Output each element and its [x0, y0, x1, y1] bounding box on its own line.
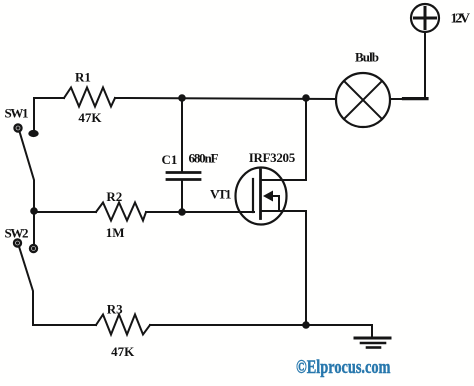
svg-text:R2: R2	[106, 189, 122, 204]
svg-text:SW2: SW2	[5, 226, 29, 241]
wire: thick supply bar	[404, 97, 428, 100]
lamp Bulb	[336, 73, 390, 127]
node: bottom junction	[302, 321, 310, 329]
svg-text:©Elprocus.com: ©Elprocus.com	[296, 357, 391, 378]
node: C1 bottom junction	[178, 208, 186, 216]
node: C1 top junction	[178, 94, 186, 102]
svg-text:R3: R3	[107, 302, 123, 317]
svg-text:VT1: VT1	[210, 186, 232, 201]
svg-text:C1: C1	[162, 152, 178, 167]
capacitor C1	[167, 98, 200, 212]
svg-text:12V: 12V	[451, 11, 471, 26]
svg-text:IRF3205: IRF3205	[249, 150, 296, 165]
switch SW2	[14, 212, 37, 325]
wire: up to 12V	[424, 32, 426, 98]
wire: R1 to bulb	[115, 98, 336, 99]
node: SW1/SW2/R2 junction	[30, 207, 38, 215]
node: drain top junction	[302, 94, 310, 102]
resistor R3	[96, 315, 150, 335]
switch SW1	[15, 125, 39, 209]
wire: R2 to gate	[146, 211, 254, 213]
wire: source down to bottom	[305, 211, 307, 325]
wire: SW2 to R3	[33, 324, 96, 326]
ground	[355, 325, 390, 348]
svg-text:1M: 1M	[106, 225, 125, 240]
svg-text:47K: 47K	[78, 110, 102, 125]
svg-text:R1: R1	[75, 69, 91, 84]
transistor VT1 IRF3205	[236, 168, 307, 225]
wire: drain connection	[262, 98, 306, 180]
svg-text:SW1: SW1	[5, 105, 29, 120]
wire: junction to R2	[34, 211, 96, 213]
wire: R3 to ground corner	[150, 324, 372, 326]
wire: bulb right stub	[390, 98, 404, 100]
wire top-left: SW1 up to R1	[34, 98, 64, 132]
power +12V terminal	[411, 4, 439, 32]
resistor R1	[64, 88, 115, 107]
resistor R2	[96, 203, 146, 221]
svg-text:Bulb: Bulb	[355, 50, 379, 65]
svg-text:680nF: 680nF	[189, 150, 219, 165]
svg-text:47K: 47K	[111, 344, 135, 359]
